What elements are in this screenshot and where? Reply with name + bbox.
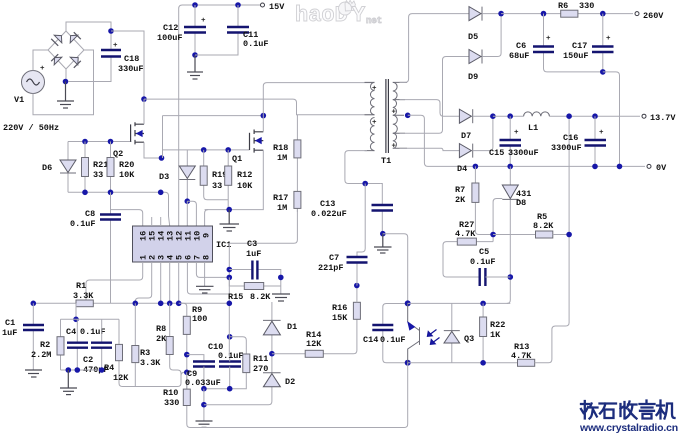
svg-text:D9: D9 [468, 72, 478, 82]
svg-text:R21: R21 [93, 160, 108, 170]
wire drive riser [162, 116, 164, 158]
capacitor C9 [185, 362, 221, 389]
node C12 top [192, 2, 198, 8]
svg-text:+: + [372, 85, 377, 93]
wire bridge top to C18 top [66, 22, 111, 50]
node C13 bottom [380, 231, 386, 237]
capacitor C11 [227, 27, 269, 49]
svg-text:C14: C14 [363, 335, 378, 345]
wire C9 ground column [203, 389, 205, 421]
wire C18 bottom to bridge bottom node [68, 57, 111, 82]
svg-text:8.2K: 8.2K [533, 221, 554, 231]
node pin5 rail [176, 301, 182, 307]
shunt regulator 431 D8 [502, 166, 531, 208]
optocoupler Q3 phototransistor [407, 303, 474, 362]
svg-text:4.7K: 4.7K [455, 229, 476, 239]
svg-text:68uF: 68uF [509, 51, 529, 61]
svg-text:2.2M: 2.2M [31, 350, 51, 360]
capacitor C15 [489, 116, 539, 166]
svg-text:33: 33 [212, 181, 222, 191]
svg-text:R11: R11 [253, 354, 268, 364]
IC1 top pin numbers [139, 231, 212, 241]
node Q1 drain row [261, 113, 267, 119]
svg-text:+: + [113, 42, 118, 50]
node D3 bottom [185, 198, 191, 204]
svg-text:C13: C13 [320, 199, 335, 209]
IC1 body [133, 217, 232, 262]
svg-text:R4: R4 [104, 363, 114, 373]
node C9 bottom [201, 386, 207, 392]
terminal 260V [635, 11, 664, 21]
wire D1D2 to R14 [272, 319, 357, 353]
svg-text:C4: C4 [66, 327, 76, 337]
node C1 top [31, 301, 37, 307]
resistor R18 [273, 115, 301, 192]
wire 431 ref [493, 199, 502, 242]
svg-text:D1: D1 [287, 322, 297, 332]
terminal 13.7V [642, 113, 676, 123]
svg-text:15K: 15K [332, 313, 348, 323]
node rail end [227, 301, 233, 307]
wire opto top row [408, 302, 511, 304]
node R12 top [225, 147, 231, 153]
svg-text:D4: D4 [457, 164, 467, 174]
node R22 top [480, 301, 486, 307]
svg-text:R16: R16 [332, 303, 347, 313]
svg-text:R10: R10 [163, 388, 178, 398]
bridge rectifier [48, 31, 84, 69]
capacitor C16 [551, 116, 606, 166]
node snubber [362, 181, 368, 187]
svg-text:R15: R15 [228, 292, 243, 302]
capacitor C10 [208, 342, 244, 389]
node R3 top [133, 301, 139, 307]
node bridge bottom [63, 79, 69, 85]
resistor R4 [104, 319, 187, 386]
svg-text:0V: 0V [656, 163, 667, 173]
node D7 D4 cathodes [490, 113, 496, 119]
node C10 bottom [227, 386, 233, 392]
node pin3 rail [158, 301, 164, 307]
wire C3 column [228, 243, 230, 356]
wire pin5 [178, 262, 180, 303]
svg-text:C15: C15 [489, 148, 504, 158]
svg-text:10K: 10K [119, 170, 135, 180]
wire pin3 [160, 262, 162, 303]
wire pin16 to C8 column [111, 210, 143, 226]
svg-text:260V: 260V [643, 11, 664, 21]
svg-text:+: + [201, 17, 206, 25]
wire Q1 gate row [163, 149, 250, 151]
svg-text:L1: L1 [528, 123, 538, 133]
watermark haoDIY.net [295, 0, 382, 28]
capacitor C12 [157, 17, 206, 43]
diode D5 [468, 7, 501, 42]
wire 15V rail [179, 5, 261, 226]
node R16 top [354, 283, 360, 289]
resistor R14 [305, 330, 323, 357]
resistor R16 [332, 286, 360, 324]
svg-text:+: + [606, 35, 611, 43]
wire pin8 ground [196, 262, 214, 293]
capacitor C14 [363, 304, 408, 363]
diode D4 [457, 116, 493, 174]
svg-text:1uF: 1uF [2, 328, 17, 338]
node rail pin13 [158, 190, 164, 196]
wire primary bottom to C13 node [345, 151, 381, 184]
svg-text:330: 330 [164, 398, 179, 408]
svg-text:R12: R12 [237, 170, 252, 180]
node D6 bottom rail b [108, 190, 114, 196]
svg-text:C8: C8 [85, 209, 95, 219]
svg-text:15V: 15V [269, 2, 285, 12]
svg-text:www.crystalradio.cn: www.crystalradio.cn [579, 422, 678, 434]
svg-text:D8: D8 [516, 198, 526, 208]
wire C18 node to DC bus [111, 31, 144, 99]
svg-text:C6: C6 [516, 41, 526, 51]
svg-text:3.3K: 3.3K [73, 291, 94, 301]
svg-text:C17: C17 [572, 41, 587, 51]
wire Q1 source [205, 150, 264, 209]
resistor R27 [443, 220, 493, 277]
svg-text:C1: C1 [5, 318, 15, 328]
wire left rail row [33, 302, 229, 304]
wire C10 R11 top row [230, 337, 247, 354]
capacitor C8 [70, 192, 121, 303]
capacitor C6 [509, 14, 603, 72]
ground under C9 [196, 421, 213, 427]
svg-text:220V / 50Hz: 220V / 50Hz [3, 123, 59, 133]
resistor R17 [273, 191, 301, 213]
node opto collector [405, 300, 411, 306]
resistor R13 [511, 342, 535, 366]
capacitor C7 [318, 184, 368, 286]
wire source row to pin9 [205, 210, 209, 226]
node C16 top [592, 113, 598, 119]
terminal 0V [647, 163, 667, 173]
svg-text:R1: R1 [76, 281, 86, 291]
ground under Q1 source [220, 210, 240, 231]
node R13 left [480, 360, 486, 366]
svg-text:330: 330 [579, 1, 594, 11]
svg-text:1uF: 1uF [246, 249, 261, 259]
wire pin1 [86, 262, 143, 300]
resistor R1 [73, 281, 94, 307]
node R5 feedback [566, 232, 572, 238]
diode D6 [42, 142, 76, 193]
svg-text:Q2: Q2 [113, 149, 123, 159]
opto LED Q3 [444, 303, 460, 362]
svg-text:+: + [372, 119, 377, 127]
resistor R3 [132, 303, 162, 386]
svg-text:100uF: 100uF [157, 33, 183, 43]
node C15 top [507, 113, 513, 119]
ground under C1 [25, 370, 42, 377]
transistor Q1 [232, 130, 263, 165]
svg-text:12K: 12K [113, 373, 129, 383]
wire tap2 to D7 [400, 100, 460, 117]
node Q2 source row [159, 155, 165, 161]
transformer T1 secondary [392, 82, 408, 150]
resistor R2 [31, 319, 64, 370]
diode D9 [468, 14, 501, 82]
ground under C13 [374, 234, 392, 253]
svg-text:D5: D5 [468, 32, 478, 42]
svg-text:3.3K: 3.3K [140, 358, 161, 368]
wire Q1 drain drive row [163, 115, 264, 117]
wire R1 left riser to RC node [75, 303, 77, 319]
svg-text:100: 100 [192, 314, 207, 324]
capacitor C13 [311, 184, 393, 234]
svg-text:+: + [392, 143, 397, 151]
node C5 right [508, 274, 514, 280]
node R7 top [473, 164, 479, 170]
svg-text:D6: D6 [42, 163, 52, 173]
svg-text:D2: D2 [285, 377, 295, 387]
node C16 bottom [592, 164, 598, 170]
resistor R7 [455, 166, 493, 234]
svg-text:1M: 1M [277, 153, 287, 163]
resistor R9 [179, 303, 208, 388]
wire bridge bottom to ground [65, 69, 67, 82]
svg-text:R6: R6 [558, 1, 568, 11]
wire IC to C3 R15 column [229, 208, 297, 243]
resistor R11 [243, 354, 269, 374]
resistor R15 [228, 277, 281, 302]
wire R13 right to feedback column [535, 116, 569, 363]
svg-text:3300uF: 3300uF [551, 143, 582, 153]
svg-text:R7: R7 [455, 185, 465, 195]
svg-text:0.1uF: 0.1uF [470, 257, 496, 267]
wire C6 C17 bottom to 0V rail [603, 72, 620, 166]
svg-text:8: 8 [202, 255, 212, 260]
node DC bus corner [141, 96, 147, 102]
wire RC bottom row [61, 369, 102, 371]
wire C7 bottom to R16 [356, 285, 358, 287]
svg-text:33: 33 [93, 170, 103, 180]
node C15 bottom [507, 164, 513, 170]
diode D3 [159, 150, 195, 201]
svg-text:12K: 12K [306, 339, 322, 349]
svg-text:C12: C12 [163, 23, 178, 33]
resistor R10 [163, 372, 190, 427]
node C3 left [227, 267, 233, 273]
wire DC bus to transformer primary mid tap [144, 99, 375, 115]
wire C12 leads [194, 5, 196, 55]
svg-text:C7: C7 [329, 253, 339, 263]
IC1 bottom pin numbers [139, 255, 212, 260]
diode D2 [263, 373, 295, 387]
node RC bottom a [66, 367, 72, 373]
ground under C4 [60, 370, 77, 395]
node C11 top [235, 2, 241, 8]
transformer T1 primary [365, 82, 378, 150]
capacitor C3 [229, 239, 280, 294]
wire pin2 [135, 262, 151, 303]
node C6C17 drop on rail [617, 164, 623, 170]
node R21 top [82, 139, 88, 145]
ground under bridge [57, 82, 74, 109]
resistor R8 [156, 303, 181, 376]
svg-text:9: 9 [202, 233, 212, 238]
capacitor C5 [470, 247, 510, 286]
node R15 left [227, 275, 233, 281]
inductor L1 [524, 112, 550, 133]
wire C9 top tap [187, 355, 204, 362]
svg-text:0.022uF: 0.022uF [311, 209, 347, 219]
wire Q2 source [144, 142, 163, 158]
ground under R15 [272, 294, 290, 301]
wire tap4 to D9 [400, 57, 470, 134]
svg-text:+: + [514, 129, 519, 137]
transistor Q2 [113, 122, 144, 159]
svg-text:8.2K: 8.2K [250, 292, 271, 302]
svg-text:150uF: 150uF [563, 51, 589, 61]
resistor R6 [558, 1, 594, 17]
wire tap1 to D5 [400, 14, 470, 83]
resistor R19 [200, 150, 228, 200]
node RC top [73, 317, 79, 323]
node C6 top [541, 11, 547, 17]
svg-text:net: net [366, 16, 382, 26]
wire tap5 to D4 [400, 148, 460, 150]
wire R5 right to feedback column [553, 234, 569, 236]
node R20 top [108, 139, 114, 145]
node opto emitter [405, 360, 411, 366]
wire D3 to IC pin10 [187, 201, 196, 226]
wire C13 to opto collector [383, 234, 408, 304]
resistor R20 [107, 142, 135, 193]
svg-text:R22: R22 [490, 320, 505, 330]
resistor R22 [480, 303, 506, 362]
AC source V1 [14, 65, 45, 105]
node R6 right [600, 11, 606, 17]
diode D7 [459, 109, 493, 141]
svg-text:Y: Y [352, 3, 366, 28]
svg-text:Q1: Q1 [232, 154, 242, 164]
opto light arrows [427, 330, 439, 345]
diode D1 [263, 320, 297, 335]
node D6 bottom rail a [82, 190, 88, 196]
svg-text:13.7V: 13.7V [650, 113, 676, 123]
node pin4 rail [167, 301, 173, 307]
wire opto emitter to bottom rail [190, 363, 408, 428]
resistor R12 [225, 150, 254, 210]
wire V1 bottom loop to bridge right corner [33, 50, 94, 115]
svg-text:T1: T1 [381, 156, 391, 166]
node C12 bottom [192, 52, 198, 58]
svg-text:3300uF: 3300uF [508, 148, 539, 158]
svg-text:0.1uF: 0.1uF [218, 351, 244, 361]
svg-text:330uF: 330uF [118, 64, 144, 74]
wire Q1 drain up to primary [263, 83, 374, 132]
node RC bottom b [75, 367, 81, 373]
capacitor C1 [2, 303, 44, 370]
wire Q2 drain [143, 99, 145, 124]
node L1 right feedback [566, 113, 572, 119]
wire opto bottom row [408, 362, 518, 364]
svg-text:R18: R18 [273, 143, 288, 153]
terminal 15V [261, 2, 286, 12]
capacitor C4 [66, 319, 106, 370]
logo crystalradio [581, 401, 675, 419]
svg-text:C3: C3 [247, 239, 257, 249]
node C9 gnd [201, 402, 207, 408]
svg-text:10K: 10K [237, 181, 253, 191]
wire RC top row [61, 318, 120, 320]
capacitor C2 [83, 319, 112, 375]
svg-text:Q3: Q3 [464, 334, 474, 344]
svg-text:R17: R17 [273, 193, 288, 203]
node R19 top [201, 147, 207, 153]
wire 13.7V rail [493, 115, 640, 117]
resistor R21 [82, 142, 109, 193]
svg-text:1K: 1K [490, 330, 501, 340]
wire 431 column to opto row [507, 199, 511, 303]
node source ground [226, 207, 232, 213]
node secondary center tap [405, 113, 411, 119]
wire V1 top to bridge left corner [33, 50, 48, 71]
wire pin6 [187, 262, 229, 294]
wire gate rail Q2 [68, 141, 131, 143]
svg-text:4.7K: 4.7K [511, 351, 532, 361]
node R10 top [184, 370, 190, 376]
svg-text:C5: C5 [479, 247, 489, 257]
node D1 D2 junction [269, 351, 275, 357]
ground under C12 [187, 55, 203, 79]
resistor R5 [533, 212, 554, 238]
wire C9 C10 bottom row [204, 373, 246, 389]
svg-text:+: + [546, 35, 551, 43]
wire pin7 [196, 262, 229, 277]
svg-text:V1: V1 [14, 95, 24, 105]
wire D1 D2 column [204, 302, 272, 405]
svg-text:+: + [40, 65, 45, 73]
node R9 C9 tap [184, 352, 190, 358]
wire bottom rail R21 R20 D6 [68, 192, 170, 226]
svg-text:221pF: 221pF [318, 263, 344, 273]
svg-text:D7: D7 [461, 131, 471, 141]
node bridge/C18 [108, 28, 114, 34]
svg-text:0.1uF: 0.1uF [243, 39, 269, 49]
wire center tap to 0V rail [408, 115, 645, 166]
node RC bottom c [99, 367, 105, 373]
svg-text:R3: R3 [140, 348, 150, 358]
wire D3 pin11 [186, 201, 188, 226]
svg-text:R8: R8 [156, 324, 166, 334]
svg-text:R2: R2 [40, 340, 50, 350]
svg-text:2K: 2K [156, 334, 167, 344]
node ref R5 [490, 232, 496, 238]
node D5 D9 cathodes [498, 11, 504, 17]
node C17 bottom [600, 69, 606, 75]
svg-text:2K: 2K [455, 195, 466, 205]
wire C11 leads [195, 5, 238, 55]
svg-text:C18: C18 [124, 54, 139, 64]
svg-text:+: + [392, 109, 397, 117]
node C10 top [227, 334, 233, 340]
wire 260V rail [501, 13, 633, 15]
svg-text:C16: C16 [563, 133, 578, 143]
wire pin4 [169, 262, 171, 303]
svg-text:D3: D3 [159, 172, 169, 182]
svg-text:+: + [599, 129, 604, 137]
capacitor C17 [563, 14, 614, 72]
svg-text:C2: C2 [83, 355, 93, 365]
svg-text:R20: R20 [119, 160, 134, 170]
svg-text:0.1uF: 0.1uF [380, 335, 406, 345]
svg-text:1M: 1M [277, 203, 287, 213]
